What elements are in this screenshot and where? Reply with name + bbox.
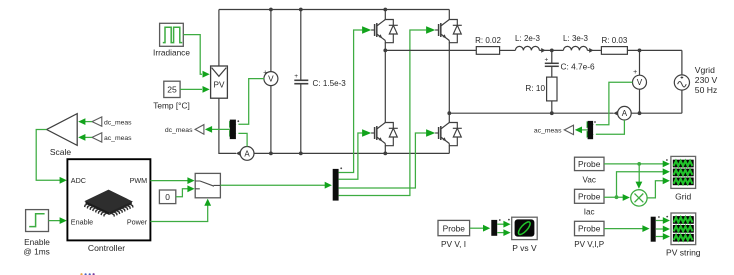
- value label R: 0.03: [602, 36, 628, 45]
- wire A2 to grid return: [631, 112, 682, 114]
- svg-text:PV V,I,P: PV V,I,P: [574, 240, 604, 249]
- wire from ac_meas to Scale: [78, 134, 92, 141]
- label Vgrid 230 V 50 Hz: [695, 65, 718, 95]
- junction AC return / V2: [638, 111, 642, 115]
- value label R: 0.02: [475, 36, 501, 45]
- junction top bus / capacitor: [299, 8, 303, 12]
- wire PV bottom to DC- rail: [219, 98, 236, 153]
- svg-text:PV: PV: [214, 81, 225, 90]
- svg-text:dc_meas: dc_meas: [104, 119, 132, 126]
- svg-text:P vs V: P vs V: [512, 243, 537, 253]
- value label L: 2e-3: [515, 34, 540, 43]
- svg-text:Temp [°C]: Temp [°C]: [153, 100, 190, 110]
- svg-text:V: V: [637, 78, 643, 87]
- svg-text:L: 3e-3: L: 3e-3: [563, 34, 588, 43]
- voltmeter V2 (AC): [633, 50, 647, 113]
- label PV V, I: [441, 239, 466, 249]
- ammeter A1 (DC): [236, 147, 254, 161]
- demux gate signals: [333, 167, 342, 200]
- wire V2 to ac mux: [587, 82, 633, 128]
- wire PV top to DC bus: [218, 10, 220, 67]
- label Vac: [583, 175, 596, 184]
- svg-text:C: 4.7e-6: C: 4.7e-6: [561, 61, 596, 71]
- wire gate1 to Q1: [339, 30, 363, 173]
- wire demux to P vs V in1: [497, 221, 510, 228]
- label Grid: [675, 192, 691, 202]
- svg-text:Enable: Enable: [24, 237, 50, 247]
- gain block Scale: [47, 114, 78, 146]
- wire Temp to PV: [180, 86, 210, 93]
- svg-text:Scale: Scale: [50, 147, 72, 157]
- svg-text:Controller: Controller: [88, 243, 125, 253]
- inductor L1 2e-3: [515, 46, 539, 50]
- IGBT Q3 (bottom left): [362, 123, 398, 146]
- junction filter cap branch: [550, 49, 554, 53]
- wire PV V,I,P probe to demux: [604, 225, 650, 232]
- wire switch to gate demux: [220, 182, 332, 189]
- wire Iac branch to Grid scope: [617, 168, 670, 197]
- wire R2 to grid node: [627, 49, 682, 51]
- wire V1 to dc mux: [229, 79, 264, 128]
- controller block: [67, 159, 150, 240]
- IGBT Q4 (bottom right): [426, 123, 462, 146]
- svg-text:A: A: [244, 149, 250, 158]
- wire PV V,I probe to demux: [470, 225, 491, 232]
- resistor R2 0.03: [601, 47, 627, 55]
- wire L2 to R2: [587, 48, 601, 53]
- svg-text:Grid: Grid: [675, 192, 691, 202]
- wire DC- rail: [254, 152, 449, 154]
- svg-text:+: +: [263, 69, 267, 76]
- port label Power: [127, 217, 148, 226]
- goto tag dc_meas: [165, 125, 204, 135]
- port label Enable: [71, 217, 93, 226]
- wire A1 to dc mux: [229, 130, 247, 147]
- label PV string: [666, 248, 701, 258]
- constant block 0: [159, 190, 175, 204]
- product block (multiply): [631, 190, 647, 206]
- wire Q2 collector to top bus: [448, 10, 450, 20]
- probe block Vac: [575, 157, 605, 170]
- resistor R3 10: [547, 77, 557, 101]
- label P vs V: [512, 243, 537, 253]
- constant block Temp 25: [164, 81, 180, 97]
- mux ac_meas: [588, 121, 596, 139]
- junction AC return / R3: [550, 111, 554, 115]
- wire Vac branch to product: [636, 164, 643, 189]
- switch block: [195, 173, 220, 197]
- wire demux to P vs V in2: [497, 229, 510, 236]
- wire from dc_meas to Scale: [78, 118, 92, 125]
- svg-text:230 V: 230 V: [695, 75, 718, 85]
- port label PWM: [130, 176, 148, 185]
- svg-text:Vac: Vac: [583, 175, 596, 184]
- junction Vac / product branch: [637, 162, 641, 166]
- wire Q3 emitter to DC- rail: [384, 146, 386, 154]
- wire gate3 to Q4: [339, 133, 427, 188]
- AC source Vgrid: [674, 50, 689, 113]
- wire gate2 to Q3: [339, 133, 363, 179]
- svg-text:Probe: Probe: [578, 192, 601, 202]
- demux PV string: [651, 217, 656, 242]
- value label C: 1.5e-3: [313, 79, 347, 88]
- svg-text:Power: Power: [127, 217, 148, 226]
- wire right leg Q2-Q4: [448, 43, 450, 123]
- IGBT Q2 (top right): [426, 20, 462, 43]
- resistor R1 0.02: [476, 47, 499, 55]
- svg-text:+: +: [294, 73, 298, 80]
- label Scale: [50, 147, 72, 157]
- wire L1 to L2: [539, 48, 563, 53]
- svg-text:Probe: Probe: [578, 159, 601, 169]
- port marks P vs V: [499, 219, 510, 221]
- label Temp [degC]: [153, 100, 190, 110]
- svg-text:+: +: [633, 69, 637, 76]
- value label R: 10: [525, 84, 545, 93]
- junction top bus / left leg: [383, 8, 387, 12]
- wire Q1 collector to top bus: [384, 10, 386, 20]
- svg-text:PV string: PV string: [666, 248, 701, 258]
- svg-text:R: 0.03: R: 0.03: [602, 36, 628, 45]
- voltmeter V1 (DC link): [263, 10, 278, 154]
- wire bridge output to filter: [385, 49, 476, 51]
- svg-text:PV V, I: PV V, I: [441, 239, 466, 249]
- demux PV V,I: [491, 220, 497, 236]
- svg-text:Irradiance: Irradiance: [153, 48, 190, 58]
- svg-text:A: A: [622, 109, 628, 118]
- junction V2 branch: [638, 49, 642, 53]
- wire AC return rail: [449, 112, 613, 114]
- svg-text:25: 25: [167, 85, 177, 95]
- svg-text:@ 1ms: @ 1ms: [23, 247, 49, 257]
- probe block PV V,I,P: [575, 221, 605, 235]
- svg-text:ac_meas: ac_meas: [104, 135, 132, 142]
- svg-text:V: V: [268, 75, 274, 84]
- inductor L2 3e-3: [563, 46, 587, 50]
- svg-text:Probe: Probe: [578, 224, 601, 234]
- wire Q4 emitter to DC- rail: [448, 146, 450, 154]
- capacitor C2 4.7e-6: [545, 50, 559, 77]
- label Irradiance: [153, 48, 190, 58]
- svg-text:ac_meas: ac_meas: [534, 128, 562, 135]
- XY scope P vs V: [512, 217, 538, 239]
- wire R3 to AC return rail: [551, 101, 553, 113]
- PV array block PV: [211, 66, 228, 98]
- junction DC- rail / left leg: [383, 152, 387, 156]
- wire Vac to Grid scope: [604, 161, 670, 168]
- port mark Grid scope: [666, 159, 668, 161]
- svg-text:C: 1.5e-3: C: 1.5e-3: [313, 79, 347, 88]
- label Controller: [88, 243, 125, 253]
- svg-text:0: 0: [165, 192, 170, 202]
- port label ADC: [71, 176, 86, 185]
- scope Grid: [671, 156, 696, 188]
- step source Enable @ 1ms: [26, 210, 49, 232]
- wire gate4 to Q2: [339, 30, 427, 196]
- wire Iac to product: [604, 194, 630, 201]
- wire Enable to Controller: [49, 217, 67, 224]
- wire Power to switch: [150, 199, 211, 222]
- wire demux to PV string in2: [656, 226, 670, 233]
- probe block Iac: [575, 189, 605, 203]
- wire ac mux to goto tag: [575, 127, 588, 134]
- svg-text:R: 0.02: R: 0.02: [475, 36, 501, 45]
- svg-text:Probe: Probe: [443, 223, 466, 233]
- from tag dc_meas: [92, 117, 132, 127]
- junction left leg midpoint: [383, 49, 387, 53]
- svg-text:dc_meas: dc_meas: [165, 127, 193, 134]
- mux dc_meas: [230, 120, 239, 140]
- junction top bus / V meter: [269, 8, 273, 12]
- wire demux to PV string in1: [656, 217, 670, 224]
- label Enable @ 1ms: [23, 237, 50, 257]
- junction DC- rail / capacitor: [299, 152, 303, 156]
- controller chip icon: [85, 190, 133, 216]
- svg-text:Iac: Iac: [584, 208, 595, 217]
- wire left leg Q1-Q3: [384, 43, 386, 123]
- wire 0 to switch: [176, 185, 195, 196]
- wire dc mux to goto tag: [205, 126, 230, 133]
- svg-text:ADC: ADC: [71, 176, 86, 185]
- svg-text:R: 10: R: 10: [525, 84, 545, 93]
- junction DC- rail / V meter: [269, 152, 273, 156]
- pulse source Irradiance: [160, 23, 184, 46]
- svg-text:+: +: [545, 56, 549, 63]
- svg-text:PWM: PWM: [130, 176, 148, 185]
- svg-text:50 Hz: 50 Hz: [695, 85, 717, 95]
- wire demux to PV string in3: [656, 233, 670, 240]
- from tag ac_meas: [92, 133, 132, 143]
- cropped annotation marks: [80, 273, 94, 275]
- goto tag ac_meas: [534, 125, 574, 135]
- wire product to Grid scope: [647, 177, 670, 198]
- label PV V,I,P: [574, 240, 604, 249]
- wire Irradiance to PV: [183, 35, 209, 78]
- scope PV string: [671, 213, 696, 245]
- wire A2 to ac mux: [587, 120, 625, 138]
- wire PWM to switch: [150, 177, 194, 184]
- value label C: 4.7e-6: [561, 61, 596, 71]
- capacitor C1 1.5e-3: [294, 10, 308, 154]
- svg-text:Vgrid: Vgrid: [695, 65, 715, 75]
- IGBT Q1 (top left): [362, 20, 398, 43]
- label Iac: [584, 208, 595, 217]
- wire DC+ top bus: [219, 9, 449, 11]
- svg-text:Enable: Enable: [71, 217, 93, 226]
- ammeter A2 (AC): [613, 106, 631, 120]
- junction right leg / AC return: [447, 111, 451, 115]
- wire Scale to Controller ADC: [36, 130, 67, 184]
- svg-text:L: 2e-3: L: 2e-3: [515, 34, 540, 43]
- value label L: 3e-3: [563, 34, 588, 43]
- port marks PV string: [658, 216, 668, 218]
- junction Iac / scope branch: [615, 195, 619, 199]
- wire R1 to L1: [500, 49, 516, 51]
- probe block PV V, I: [438, 220, 470, 235]
